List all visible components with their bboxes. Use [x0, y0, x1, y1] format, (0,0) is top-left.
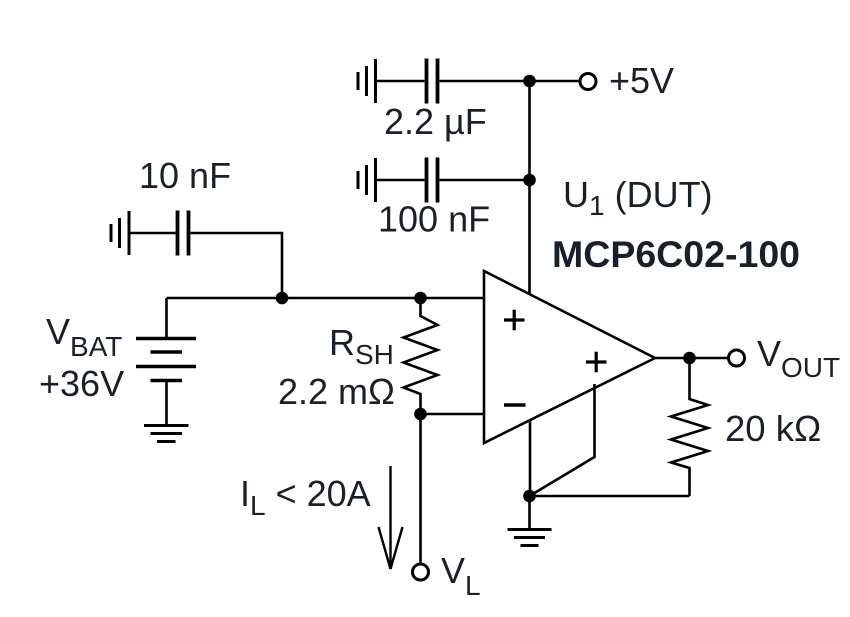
- pin + (output reference): [586, 352, 607, 373]
- pin - (inverting input): [504, 403, 526, 406]
- wire: op-amp VSS pin down to ground node: [529, 421, 532, 496]
- ground (op-amp): [508, 496, 552, 546]
- terminal VL (open circle): [413, 564, 429, 580]
- op-amp U1 triangle: [484, 271, 655, 443]
- wire: output reference pin down to ground node: [530, 384, 595, 496]
- capacitor 10nF: [178, 211, 189, 256]
- svg-text:10 nF: 10 nF: [139, 155, 231, 196]
- wire: ground to 100nF capacitor: [376, 179, 425, 182]
- svg-text:20 kΩ: 20 kΩ: [725, 408, 821, 449]
- junction: +5V rail / 100nF: [524, 174, 536, 186]
- svg-text:2.2 mΩ: 2.2 mΩ: [278, 371, 395, 412]
- ground (left of 100nF capacitor, rotated): [358, 158, 376, 202]
- resistor 20 kOhm (load): [671, 358, 708, 496]
- ground (left of 10nF capacitor, rotated): [111, 211, 129, 255]
- battery VBAT +36V: [136, 298, 196, 425]
- wire: RSH bottom to op-amp -input: [421, 413, 485, 416]
- pin + (non-inverting input): [504, 310, 525, 331]
- wire: 2.2uF capacitor to supply rail: [440, 80, 530, 83]
- resistor RSH 2.2 mOhm (shunt): [404, 298, 438, 414]
- ground (left of 2.2uF capacitor, rotated): [358, 59, 376, 103]
- terminal VOUT (open circle): [729, 350, 745, 366]
- junction: 10nF / main net: [276, 292, 288, 304]
- capacitor 100nF (bypass): [427, 158, 438, 203]
- terminal +5V (open circle): [580, 74, 596, 90]
- capacitor 2.2uF (bypass): [427, 59, 438, 104]
- wire: ground to 2.2uF capacitor: [376, 80, 425, 83]
- wire: 10nF capacitor to battery node: [191, 233, 283, 298]
- svg-text:U1 (DUT): U1 (DUT): [563, 174, 713, 221]
- wire: supply rail vertical to op-amp top: [528, 81, 531, 294]
- wire: ground node to 20k resistor bottom: [530, 495, 690, 498]
- wire: op-amp output to VOUT terminal: [655, 357, 729, 360]
- svg-text:+36V: +36V: [39, 363, 124, 404]
- current arrow IL: [379, 466, 403, 569]
- wire: supply rail to +5V terminal: [530, 80, 581, 83]
- wire: 100nF capacitor to supply rail: [440, 179, 530, 182]
- junction: +5V rail / 2.2uF: [524, 75, 536, 87]
- ground (battery): [144, 426, 189, 442]
- junction: output / 20k: [684, 352, 696, 364]
- svg-text:100 nF: 100 nF: [378, 199, 490, 240]
- junction: RSH bottom / -input / VL: [415, 408, 427, 420]
- junction: RSH top / main net: [415, 292, 427, 304]
- wire: RSH bottom down to VL terminal: [419, 414, 422, 563]
- wire: main horizontal net VBAT to op-amp +input: [167, 297, 485, 300]
- svg-text:+5V: +5V: [609, 60, 674, 101]
- svg-text:MCP6C02-100: MCP6C02-100: [552, 233, 800, 275]
- wire: ground to 10nF capacitor: [129, 232, 176, 235]
- junction: ground node: [524, 490, 536, 502]
- svg-text:2.2 µF: 2.2 µF: [384, 101, 487, 142]
